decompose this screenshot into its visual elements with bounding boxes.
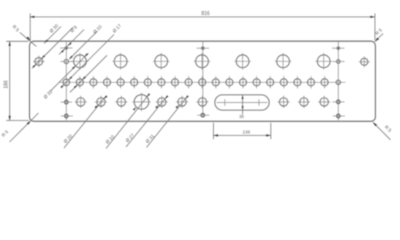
hole D16 middle row #8	[171, 76, 178, 88]
hole bottom row #6	[176, 96, 188, 108]
leader D10 to small hole	[69, 24, 103, 59]
centerline middle row	[59, 81, 346, 83]
hole tiny bottom row left	[61, 100, 73, 104]
dimension 186 left	[4, 41, 29, 120]
svg-text:36: 36	[239, 114, 244, 119]
svg-text:R 5: R 5	[12, 24, 21, 33]
leader D17 to middle row hole	[60, 23, 122, 88]
hole D16 middle row #9	[185, 76, 192, 88]
hole bottom row #5	[156, 96, 168, 108]
dimension 816 top	[30, 11, 375, 41]
hole bottom row #1	[75, 96, 87, 108]
hole D16 middle row #1	[76, 76, 83, 88]
leader to edge mark hole	[59, 30, 84, 55]
hole bottom row #9	[298, 96, 310, 108]
hole top-right D16	[359, 56, 370, 67]
center mark hole (338,48)	[332, 47, 344, 50]
centerline column middle	[202, 42, 204, 118]
tiny hole (66,116)	[61, 114, 73, 118]
svg-text:R 5: R 5	[384, 124, 393, 133]
tiny hole (338,116)	[333, 114, 345, 118]
slot left arc center	[224, 99, 226, 106]
hole small top left column	[61, 59, 74, 63]
leader R5 bottom-left corner	[1, 113, 39, 142]
hole D30 top row #6	[275, 53, 292, 70]
leader D30 stub	[44, 23, 61, 44]
hole D16 middle row #3	[103, 76, 110, 88]
centerline column left	[65, 42, 67, 121]
svg-text:186: 186	[4, 80, 10, 89]
leader D30 through big hole	[43, 53, 89, 100]
hole D30 top row #7	[315, 53, 332, 70]
hole D16 middle row #19	[321, 76, 328, 88]
svg-text:136: 136	[242, 129, 250, 134]
hole D30 top row #3	[153, 53, 170, 70]
hole bottom row #7	[196, 96, 208, 108]
hole D16 middle row #4	[117, 76, 124, 88]
hole D16 middle row #13	[239, 76, 246, 88]
hole top-left D20	[33, 56, 45, 68]
slot height dimension 36	[239, 95, 244, 119]
hole D16 middle row #18	[307, 76, 314, 88]
leader D20 bottom	[63, 95, 108, 148]
leader R5 top-right corner	[374, 27, 383, 41]
tiny hole (203,115)	[197, 113, 209, 117]
hole bottom row #4	[132, 93, 150, 111]
hole small top right column	[333, 60, 345, 64]
hole bottom row #2	[95, 96, 107, 108]
leader D9 to top-left hole	[32, 24, 78, 68]
slot length dimension 136	[213, 123, 270, 139]
hole D30 top row #2	[112, 53, 129, 70]
slot right arc center	[258, 99, 260, 106]
hole small middle row right end	[336, 80, 340, 84]
leader D31 bottom	[145, 95, 189, 147]
leader through middle row hole 2	[70, 55, 107, 92]
svg-text:Ø 17: Ø 17	[112, 23, 123, 34]
hole bottom row #10	[318, 96, 330, 108]
center mark hole (66,48)	[60, 47, 72, 50]
hole D30 top row #5	[234, 53, 251, 70]
hole D16 middle row #12	[226, 76, 233, 88]
hole D16 middle row #5	[131, 76, 138, 88]
svg-text:Ø 30: Ø 30	[43, 89, 54, 100]
leader D10 bottom	[105, 93, 151, 148]
svg-text:Ø 9: Ø 9	[69, 24, 78, 33]
svg-text:Ø 30: Ø 30	[49, 23, 60, 34]
hole D16 middle row #14	[253, 76, 260, 88]
leader R5 bottom-right corner	[373, 122, 393, 140]
hole D16 middle row #11	[212, 76, 219, 88]
centerline column right	[337, 42, 339, 121]
leader R5 top-left corner	[12, 24, 37, 46]
hole D30 top row #4	[194, 53, 211, 70]
svg-text:Ø 10: Ø 10	[92, 24, 103, 35]
leader D27 bottom	[125, 95, 169, 147]
hole bottom row #8	[278, 96, 290, 108]
hole D16 middle row #16	[280, 76, 287, 88]
hole D16 middle row #6	[144, 76, 151, 88]
hole D16 middle row #15	[267, 76, 274, 88]
hole D16 middle row #7	[158, 76, 165, 88]
hole tiny bottom row right	[333, 100, 345, 104]
plate outline	[30, 41, 376, 121]
center mark hole (203,48)	[197, 47, 209, 50]
svg-text:R 5: R 5	[1, 129, 10, 138]
hole D30 top row #1	[72, 53, 89, 70]
hole bottom row #3	[115, 96, 127, 108]
hole D16 middle row #2	[90, 76, 97, 88]
slot centerline	[217, 102, 268, 104]
hole small middle row left end	[63, 79, 70, 86]
slot obround	[215, 95, 269, 110]
svg-text:816: 816	[201, 11, 210, 17]
hole D16 middle row #10	[199, 76, 206, 88]
hole D16 middle row #17	[294, 76, 301, 88]
